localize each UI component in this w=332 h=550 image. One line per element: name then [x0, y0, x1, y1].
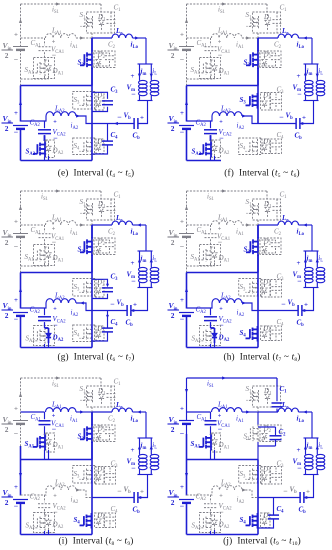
- svg-text:DA2: DA2: [52, 147, 64, 157]
- svg-text:D3: D3: [96, 279, 105, 289]
- label S3 (panel f): [240, 96, 247, 106]
- capacitor C4 (panel g): [92, 311, 113, 342]
- winding output (panel j): [316, 453, 325, 475]
- svg-text:LA2: LA2: [220, 105, 231, 115]
- svg-text:iL: iL: [152, 254, 157, 264]
- wire mid rail (panel f): [257, 86, 259, 124]
- svg-text:im: im: [307, 255, 313, 265]
- voltage label VCA1 (panel i): [51, 414, 65, 434]
- svg-text:iS1: iS1: [52, 6, 60, 16]
- svg-text:+: +: [14, 484, 18, 491]
- svg-text:Lo: Lo: [115, 401, 123, 411]
- svg-text:iA1: iA1: [70, 41, 78, 51]
- svg-text:C3: C3: [277, 460, 285, 470]
- svg-text:−: −: [131, 277, 136, 286]
- label CA1 (panel h): [197, 226, 208, 236]
- svg-text:−: −: [14, 242, 19, 251]
- wire Cb to output (panel e): [138, 101, 148, 124]
- label S4 (panel f): [240, 142, 247, 152]
- label D3 (panel h): [262, 279, 271, 289]
- wire Lo down to output (panel e): [145, 38, 147, 64]
- current arrow iA2 (panel j): [237, 488, 259, 505]
- svg-text:D3: D3: [262, 466, 271, 476]
- voltage label Vm (panel i): [127, 447, 137, 473]
- wire top rail lower (panel i): [20, 434, 22, 460]
- svg-text:S1: S1: [246, 385, 253, 395]
- wire S2 source down (panel h): [257, 255, 259, 273]
- svg-text:LA1: LA1: [217, 401, 228, 411]
- wire bottom inner top (panel i): [21, 490, 47, 495]
- svg-text:+: +: [297, 73, 301, 80]
- wire Cb to output (panel g): [131, 288, 148, 311]
- svg-text:CA2: CA2: [196, 306, 207, 316]
- diode D3 (panel g): [95, 280, 105, 298]
- transistor S3 (panel g): [73, 279, 96, 297]
- transistor S3 (panel f): [246, 93, 258, 109]
- current arrow iA1 (panel g): [70, 223, 84, 237]
- wire top-left loop bottom (panel j): [211, 450, 215, 460]
- wire mid horizontal (panel f): [187, 85, 259, 87]
- label C2 (panel j): [279, 428, 287, 438]
- svg-text:C2: C2: [274, 41, 282, 51]
- capacitor CA1 (panel i): [39, 412, 51, 434]
- current arrow iA1 (panel f): [236, 36, 250, 50]
- svg-text:Cb: Cb: [295, 132, 303, 142]
- label C4 (panel j): [277, 505, 285, 515]
- winding output (panel i): [150, 453, 159, 475]
- transistor S3 (panel i): [73, 466, 96, 484]
- switch cell box S1 (panel j): [253, 386, 281, 407]
- svg-text:S1: S1: [246, 11, 253, 21]
- label Cb (panel h): [297, 319, 305, 329]
- label SA1 (panel e): [25, 66, 35, 76]
- label C3 (panel f): [277, 86, 285, 96]
- voltage label Vm (panel g): [127, 260, 137, 286]
- current label iS1 (panel i): [52, 380, 60, 390]
- capacitor Cb (panel e): [134, 118, 138, 129]
- label LA1 (panel g): [51, 214, 62, 224]
- svg-text:D3: D3: [96, 466, 105, 476]
- label S1 (panel j): [246, 385, 253, 395]
- label Lo (panel f): [281, 27, 289, 37]
- svg-text:D3: D3: [262, 279, 271, 289]
- label DA1 (panel e): [52, 67, 64, 77]
- winding magnetizing (panel g): [139, 266, 148, 288]
- label CA2 (panel j): [196, 493, 207, 503]
- label C3 (panel g): [111, 273, 119, 283]
- label S4 (panel e): [74, 142, 81, 152]
- svg-text:−: −: [53, 508, 58, 517]
- wire bottom rail upper (panel f): [186, 86, 188, 122]
- diode D4 (panel i): [95, 513, 105, 528]
- current arrow left rail (panel h): [185, 288, 188, 292]
- svg-text:S4: S4: [74, 329, 81, 339]
- svg-text:Vin: Vin: [169, 228, 178, 238]
- label D1 (panel e): [97, 13, 106, 23]
- svg-text:+: +: [297, 447, 301, 454]
- svg-text:iLo: iLo: [297, 41, 305, 51]
- wire top-left loop bottom (panel i): [45, 450, 49, 460]
- transistor S2 (panel h): [246, 238, 258, 257]
- label C1 (panel i): [114, 378, 122, 388]
- svg-text:LA1: LA1: [217, 214, 228, 224]
- wire top rail left (panel i): [19, 378, 22, 421]
- winding magnetizing (panel e): [139, 79, 148, 101]
- transistor S3 (panel j): [239, 466, 262, 484]
- svg-text:−: −: [279, 113, 284, 122]
- label CA2 (panel h): [196, 306, 207, 316]
- svg-text:iA2: iA2: [237, 309, 245, 319]
- svg-text:DA1: DA1: [218, 67, 230, 77]
- capacitor C1 (panel e): [107, 12, 116, 33]
- svg-text:+: +: [140, 489, 144, 496]
- svg-text:+: +: [180, 110, 184, 117]
- inductor LA2 (panel j): [212, 486, 242, 490]
- svg-text:im: im: [141, 442, 147, 452]
- wire bottom rail lower (panel i): [20, 503, 22, 535]
- current label iS1 (panel g): [41, 193, 49, 203]
- svg-text:iA1: iA1: [236, 41, 244, 51]
- wire node top inner (panel i): [21, 411, 45, 413]
- svg-text:Cb: Cb: [297, 319, 305, 329]
- svg-text:DA1: DA1: [52, 441, 64, 451]
- capacitor C2 (panel j): [258, 427, 282, 446]
- svg-text:−: −: [117, 113, 122, 122]
- label DA1 (panel f): [218, 67, 230, 77]
- capacitor C3 (panel h): [271, 280, 282, 298]
- current arrow iLo (panel f): [297, 36, 307, 50]
- svg-text:SA1: SA1: [25, 253, 35, 263]
- svg-text:2: 2: [5, 124, 9, 133]
- capacitor CA2 (panel i): [38, 495, 51, 515]
- label SA2 (panel e): [26, 148, 36, 158]
- capacitor C1 (panel j): [272, 378, 283, 412]
- svg-text:+: +: [180, 484, 184, 491]
- voltage label Vb (panel e): [117, 112, 144, 122]
- svg-text:D1: D1: [263, 200, 272, 210]
- inductor Lo (panel g): [92, 221, 146, 225]
- label D1 (panel j): [263, 387, 272, 397]
- diode DA2 (panel e): [45, 141, 52, 156]
- wire S1 to node A (panel j): [257, 407, 259, 412]
- wire top rail left (panel e): [19, 4, 22, 47]
- svg-text:CA1: CA1: [31, 226, 42, 236]
- svg-text:Vin: Vin: [169, 114, 178, 124]
- label D4 (panel h): [262, 325, 271, 335]
- wire node top inner (panel h): [187, 224, 211, 226]
- svg-text:−: −: [14, 128, 19, 137]
- diode D4 (panel j): [261, 513, 271, 528]
- current arrow iL (panel j): [316, 438, 324, 453]
- label DA1 (panel g): [52, 254, 64, 264]
- svg-text:iL: iL: [152, 441, 157, 451]
- wire Lo down to output (panel f): [311, 38, 313, 64]
- svg-text:S4: S4: [74, 516, 81, 526]
- capacitor C4 (panel h): [271, 326, 282, 341]
- transistor S4 (panel j): [246, 513, 258, 529]
- transistor S4 (panel h): [246, 326, 258, 342]
- label C1 (panel j): [280, 385, 288, 395]
- svg-text:S1: S1: [80, 11, 87, 21]
- label SA1 (panel f): [191, 66, 201, 76]
- svg-text:2: 2: [5, 51, 9, 60]
- diode DA2 (panel j): [211, 515, 218, 530]
- svg-text:+: +: [14, 297, 18, 304]
- svg-text:CA1: CA1: [197, 226, 208, 236]
- current arrow im (panel h): [304, 251, 313, 266]
- svg-text:2: 2: [171, 51, 175, 60]
- svg-text:(g) Interval (t6 ~ t7): (g) Interval (t6 ~ t7): [57, 352, 134, 363]
- capacitor C2 (panel h): [265, 240, 281, 253]
- transistor S1 (panel i): [81, 390, 93, 403]
- svg-text:Lo: Lo: [281, 214, 289, 224]
- wire S1 to node A (panel h): [257, 220, 259, 225]
- label SA2 (panel g): [26, 335, 36, 345]
- svg-text:SA1: SA1: [25, 440, 35, 450]
- label C2 (panel f): [274, 41, 282, 51]
- wire Cb to output (panel i): [138, 475, 148, 498]
- voltage source Vin/2 upper (panel i): [2, 406, 29, 439]
- svg-text:−: −: [219, 134, 224, 143]
- label S4 (panel g): [74, 329, 81, 339]
- svg-text:D1: D1: [97, 200, 106, 210]
- svg-text:Vin: Vin: [3, 488, 12, 498]
- svg-text:Vin: Vin: [3, 415, 12, 425]
- label LA2 (panel g): [54, 292, 65, 302]
- label CA1 (panel g): [31, 226, 42, 236]
- svg-text:LA1: LA1: [51, 401, 62, 411]
- svg-text:Vb: Vb: [117, 299, 125, 309]
- svg-text:−: −: [14, 55, 19, 64]
- caption (panel i): [59, 536, 134, 547]
- svg-text:+: +: [131, 73, 135, 80]
- current arrow iA2 (panel h): [237, 301, 259, 318]
- diode D3 (panel i): [95, 467, 105, 485]
- svg-text:Lo: Lo: [115, 214, 123, 224]
- svg-text:D2: D2: [97, 51, 106, 61]
- diode DA1 (panel j): [211, 434, 218, 450]
- current arrow iLo (panel j): [297, 410, 307, 424]
- svg-text:C2: C2: [108, 228, 116, 238]
- diode DA2 (panel i): [45, 515, 52, 530]
- transistor S4 (panel g): [73, 325, 96, 342]
- svg-text:D4: D4: [262, 325, 271, 335]
- wire bottom rail lower (panel j): [186, 503, 188, 535]
- wire output bottom (panel e): [138, 100, 153, 102]
- voltage source Vin/2 lower (panel e): [2, 110, 29, 137]
- svg-text:(e) Interval (t4 ~ t5): (e) Interval (t4 ~ t5): [58, 168, 135, 179]
- voltage label VCA2 (panel e): [53, 120, 67, 143]
- wire bottom rail upper (panel j): [186, 460, 188, 496]
- svg-text:−: −: [180, 55, 185, 64]
- wire bottom horizontal (panel j): [187, 534, 259, 536]
- label Cb (panel f): [295, 132, 303, 142]
- label S3 (panel j): [240, 470, 247, 480]
- wire top horizontal iS1 (panel i): [21, 376, 102, 386]
- wire output top (panel h): [304, 250, 319, 252]
- wire top-left loop bottom (panel g): [21, 263, 49, 266]
- svg-text:+: +: [133, 302, 137, 309]
- wire bottom source stubs (panel j): [211, 530, 215, 535]
- wire mid horizontal (panel g): [21, 272, 93, 274]
- transistor SA2 (panel g): [33, 322, 55, 345]
- svg-text:−: −: [110, 300, 115, 309]
- diode D4 (panel e): [95, 139, 105, 154]
- svg-text:DA1: DA1: [52, 254, 64, 264]
- svg-text:im: im: [141, 68, 147, 78]
- label LA2 (panel h): [220, 292, 231, 302]
- caption (panel g): [57, 352, 134, 363]
- svg-text:CA2: CA2: [196, 119, 207, 129]
- current arrow left rail (panel j): [185, 473, 188, 477]
- capacitor CA2 (panel g): [38, 308, 51, 328]
- current arrow im (panel f): [304, 64, 313, 79]
- diode D1 (panel i): [99, 388, 104, 405]
- wire bottom rail lower (panel e): [20, 129, 22, 161]
- transistor SA2 (panel f): [199, 135, 221, 157]
- voltage label Vm (panel f): [293, 73, 303, 99]
- svg-text:DA2: DA2: [52, 521, 64, 531]
- label Lo (panel j): [281, 401, 289, 411]
- diode D2 (panel i): [92, 425, 115, 442]
- wire top rail lower (panel f): [186, 60, 188, 86]
- svg-text:−: −: [281, 300, 286, 309]
- svg-text:2: 2: [5, 311, 9, 320]
- voltage label VCA1 (panel g): [51, 227, 65, 247]
- wire top rail lower (panel e): [20, 60, 22, 86]
- svg-text:iA1: iA1: [236, 228, 244, 238]
- capacitor C4 (panel f): [271, 139, 282, 154]
- capacitor CA1 (panel f): [205, 38, 217, 60]
- svg-text:C3: C3: [277, 273, 285, 283]
- switch cell box S1 (panel i): [87, 386, 115, 407]
- winding output (panel e): [150, 79, 159, 101]
- svg-text:D4: D4: [96, 512, 105, 522]
- wire bottom horizontal (panel i): [21, 534, 93, 536]
- svg-text:iLo: iLo: [131, 228, 139, 238]
- inductor Lo (panel f): [258, 34, 312, 38]
- svg-text:iS1: iS1: [207, 193, 215, 203]
- svg-text:Cb: Cb: [126, 319, 134, 329]
- svg-text:Lo: Lo: [281, 27, 289, 37]
- label S1 (panel f): [246, 11, 253, 21]
- svg-text:Vin: Vin: [169, 301, 178, 311]
- wire top-left loop bottom (panel e): [21, 76, 49, 79]
- label S2 (panel j): [244, 433, 251, 443]
- svg-text:iA2: iA2: [71, 496, 79, 506]
- wire bottom inner top (panel f): [187, 116, 213, 121]
- transistor SA2 (panel h): [199, 322, 221, 345]
- wire mid rail lower (panel i): [91, 498, 93, 535]
- svg-text:Vin: Vin: [169, 41, 178, 51]
- svg-text:CA1: CA1: [31, 39, 42, 49]
- label Cb (panel j): [299, 506, 307, 516]
- wire bottom source stubs (panel f): [211, 156, 215, 161]
- transistor S4 (panel f): [239, 138, 262, 155]
- svg-text:iL: iL: [318, 254, 323, 264]
- label Cb (panel i): [133, 506, 141, 516]
- label D4 (panel j): [262, 512, 271, 522]
- svg-text:iA1: iA1: [70, 415, 78, 425]
- svg-text:D4: D4: [262, 512, 271, 522]
- wire S1 to node A (panel e): [91, 33, 93, 38]
- label LA1 (panel f): [217, 27, 228, 37]
- svg-text:−: −: [14, 502, 19, 511]
- label Lo (panel h): [281, 214, 289, 224]
- label SA2 (panel h): [192, 335, 202, 345]
- capacitor Cb (panel j): [300, 492, 304, 503]
- label C4 (panel e): [111, 131, 119, 141]
- svg-text:CA1: CA1: [197, 39, 208, 49]
- voltage source Vin/2 lower (panel i): [2, 484, 29, 511]
- label C4 (panel g): [111, 318, 119, 328]
- capacitor C4 (panel i): [105, 513, 116, 528]
- inductor LA2 (panel f): [212, 112, 242, 116]
- voltage label Vb (panel f): [279, 112, 306, 122]
- label D3 (panel i): [96, 466, 105, 476]
- svg-text:iL: iL: [318, 441, 323, 451]
- voltage source Vin/2 lower (panel j): [168, 484, 195, 511]
- wire bottom rail upper (panel g): [20, 273, 22, 309]
- wire to Cb (panel f): [258, 122, 306, 125]
- winding output (panel g): [150, 266, 159, 288]
- svg-text:C2: C2: [108, 415, 116, 425]
- inductor LA2 (panel e): [46, 112, 76, 116]
- wire node A to S2 drain (panel j): [257, 412, 259, 425]
- current arrow iL (panel i): [150, 438, 158, 453]
- diode D2 (panel h): [258, 238, 281, 255]
- current arrow iA1 (panel e): [70, 36, 84, 50]
- wire node A to S2 drain (panel g): [91, 225, 93, 238]
- wire top-left loop bottom (panel f): [187, 76, 215, 79]
- voltage label VCA2 (panel h): [219, 307, 233, 330]
- transistor S1 (panel h): [247, 203, 259, 216]
- svg-text:SA2: SA2: [192, 148, 202, 158]
- wire to Cb (panel e): [92, 122, 134, 125]
- svg-text:−: −: [219, 508, 224, 517]
- voltage source Vin/2 upper (panel g): [2, 219, 29, 252]
- svg-text:D1: D1: [263, 13, 272, 23]
- svg-text:+: +: [180, 219, 184, 226]
- current arrow iA1 (panel i): [70, 410, 84, 424]
- transistor SA2 (panel e): [33, 135, 55, 157]
- wire output bottom (panel h): [304, 287, 319, 289]
- label Lo (panel g): [115, 214, 123, 224]
- svg-text:−: −: [219, 321, 224, 330]
- caption (panel h): [223, 352, 300, 363]
- wire mid rail (panel h): [257, 273, 259, 311]
- wire bottom rail lower (panel f): [186, 129, 188, 161]
- current arrow iA1 (panel j): [236, 410, 250, 424]
- svg-text:D2: D2: [97, 238, 106, 248]
- svg-text:+: +: [306, 489, 310, 496]
- transistor S1 (panel e): [81, 16, 93, 29]
- transistor SA2 (panel i): [33, 509, 55, 532]
- transistor SA1 (panel i): [33, 433, 55, 452]
- svg-text:D2: D2: [263, 51, 272, 61]
- diode D4 (panel f): [261, 139, 271, 154]
- diode D3 (panel j): [261, 467, 271, 485]
- current arrow iL (panel h): [316, 251, 324, 266]
- label D1 (panel g): [97, 200, 106, 210]
- inductor LA1 (panel f): [212, 34, 259, 38]
- transistor S1 (panel f): [247, 16, 259, 29]
- label S2 (panel e): [78, 59, 85, 69]
- svg-text:−: −: [297, 277, 302, 286]
- capacitor C4 (panel j): [258, 498, 279, 529]
- svg-text:+: +: [304, 302, 308, 309]
- wire mid rail (panel j): [257, 460, 259, 498]
